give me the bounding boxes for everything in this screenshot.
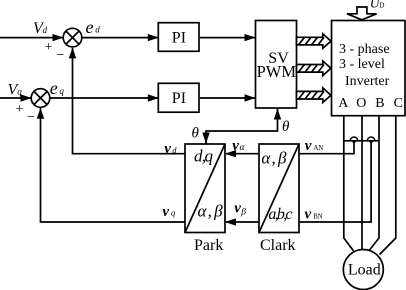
svg-text:d: d: [172, 145, 177, 155]
wire vBN to Clark: [300, 141, 372, 222]
svg-text:v: v: [305, 206, 312, 222]
wire S1 to PI1: [82, 37, 158, 39]
Park alpha-beta label: [198, 202, 224, 221]
Load label: [348, 262, 381, 279]
node Vq label: [8, 82, 23, 99]
label theta right: [282, 119, 290, 135]
PI controller PI1: [158, 23, 199, 52]
svg-text:−: −: [27, 110, 35, 125]
Clark block name: [260, 237, 296, 254]
svg-text:v: v: [232, 138, 239, 154]
label vq: [162, 204, 176, 220]
junction dot vAN tap: [352, 140, 355, 143]
svg-text:A: A: [338, 96, 349, 111]
Clark block diagonal: [259, 144, 299, 233]
node ed label: [86, 17, 101, 37]
wire Vd input: [0, 37, 63, 39]
svg-text:−: −: [57, 48, 65, 63]
label v_alpha: [232, 138, 245, 154]
summing junction S2: [31, 89, 50, 108]
Clark alpha-beta label: [261, 149, 287, 168]
hop arc at vBN tap: [367, 137, 375, 141]
hatched bus arrow 3 SVPWM to inverter: [297, 88, 331, 103]
Clark abc label: [268, 206, 292, 223]
wire phase C output: [380, 116, 396, 254]
wire phase A output: [344, 116, 354, 251]
svg-text:Clark: Clark: [260, 237, 296, 254]
tap bar between A and B: [344, 140, 379, 142]
label v_beta: [234, 201, 246, 218]
wire Vq input: [0, 97, 31, 99]
Park dq label: [194, 147, 214, 166]
svg-text:q: q: [59, 86, 64, 96]
arrowhead into SVPWM bottom input: [245, 94, 256, 101]
arrowhead theta into Park: [202, 133, 209, 144]
svg-text:PWM: PWM: [257, 62, 297, 81]
junction dot vBN tap: [370, 140, 373, 143]
plus sign at S2: [16, 102, 24, 117]
svg-text:v: v: [234, 201, 241, 217]
wire PI1 to SVPWM: [200, 37, 255, 39]
svg-text:+: +: [16, 102, 24, 117]
wire PI2 to SVPWM: [200, 97, 255, 99]
arrowhead into summing junction S1: [53, 34, 64, 41]
svg-text:θ: θ: [282, 119, 290, 135]
svg-text:d: d: [43, 25, 48, 35]
svg-text:3 - level: 3 - level: [339, 57, 385, 72]
Park block diagonal: [185, 144, 225, 233]
svg-text:α,β: α,β: [198, 202, 224, 221]
svg-text:e: e: [50, 78, 58, 98]
svg-text:Inverter: Inverter: [345, 74, 390, 89]
minus sign at S2: [27, 110, 35, 125]
wire v_alpha Clark to Park: [226, 153, 259, 155]
wire vAN to Clark: [300, 141, 355, 154]
svg-text:q: q: [171, 208, 176, 218]
svg-text:B: B: [375, 96, 384, 111]
DC link block arrow UD: [347, 7, 377, 20]
svg-text:BN: BN: [313, 213, 323, 220]
SVPWM block U2: [256, 21, 297, 109]
minus sign at S1: [57, 48, 65, 63]
svg-text:D: D: [379, 1, 384, 9]
svg-text:C: C: [394, 96, 403, 111]
inverter block U3: [332, 21, 406, 116]
svg-text:v: v: [305, 138, 312, 154]
svg-text:Load: Load: [348, 262, 381, 279]
svg-text:+: +: [45, 40, 53, 55]
Park transform block U4: [185, 144, 225, 233]
svg-text:Park: Park: [194, 237, 223, 254]
arrowhead theta into SVPWM: [274, 109, 281, 120]
svg-text:α,β: α,β: [261, 149, 287, 168]
wire vq feedback Park to S2: [41, 108, 186, 222]
wire v_beta Clark to Park: [226, 221, 259, 223]
summing junction S1: [63, 28, 82, 47]
wire vd feedback Park to S1: [73, 48, 186, 154]
svg-text:v: v: [164, 141, 171, 157]
svg-text:v: v: [162, 204, 169, 220]
wire S2 to PI2: [50, 97, 158, 99]
svg-text:d: d: [95, 25, 100, 35]
svg-text:d,q: d,q: [194, 147, 214, 166]
inverter terminal labels A O B C: [338, 96, 403, 111]
plus sign at S1: [45, 40, 53, 55]
svg-text:AN: AN: [314, 145, 324, 152]
hop arc at vAN tap: [350, 137, 358, 141]
arrowhead into SVPWM top input: [245, 34, 256, 41]
svg-text:β: β: [240, 208, 246, 218]
arrowhead v_beta into Park: [225, 218, 236, 225]
PI controller PI2: [158, 83, 199, 112]
wire phase B output: [370, 116, 380, 250]
arrowhead into summing junction S2: [21, 94, 32, 101]
Park block name: [194, 237, 223, 254]
arrowhead vd into S1: [69, 47, 76, 58]
arrowhead vq into S2: [37, 108, 44, 119]
Clark transform block U5: [259, 144, 299, 233]
label theta left: [192, 126, 200, 142]
label vBN: [305, 206, 323, 222]
svg-text:c: c: [285, 206, 292, 223]
svg-text:O: O: [356, 96, 366, 111]
arrowhead into PI2: [148, 94, 159, 101]
svg-text:α: α: [240, 143, 246, 153]
label UD: [370, 0, 385, 11]
label vAN: [305, 138, 324, 154]
arrowhead into PI1: [148, 34, 159, 41]
node Vd label: [33, 20, 48, 37]
label vd: [164, 141, 177, 157]
wire neutral O output: [361, 116, 363, 250]
svg-text:e: e: [86, 17, 94, 37]
theta net wire: [206, 108, 278, 144]
svg-text:PI: PI: [172, 90, 186, 107]
svg-text:3 - phase: 3 - phase: [339, 42, 390, 57]
Load machine M1: [343, 250, 383, 290]
hatched bus arrow 1 SVPWM to inverter: [297, 34, 331, 49]
node eq label: [50, 78, 65, 98]
arrowhead v_alpha into Park: [225, 150, 236, 157]
hatched bus arrow 2 SVPWM to inverter: [297, 61, 331, 76]
svg-text:PI: PI: [172, 30, 186, 47]
svg-text:θ: θ: [192, 126, 200, 142]
